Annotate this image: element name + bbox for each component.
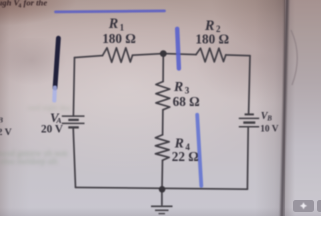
- wire: R2 to top-right corner: [226, 54, 250, 57]
- wire: left vertical top (corner to battery VA): [73, 58, 74, 117]
- UI zoom button with star: [293, 200, 314, 212]
- wire: top-left horizontal from left corner to R1: [75, 56, 103, 58]
- wire: R3 to R4: [162, 110, 164, 135]
- wire: right vertical bottom (battery VB to bottom wire): [246, 127, 249, 190]
- battery VB: [239, 114, 259, 126]
- page edge dark line (slanted): [280, 0, 289, 219]
- label R3: [173, 79, 190, 96]
- label VA: [50, 110, 62, 125]
- annotation: dark pen vertical mark (left): [55, 38, 58, 88]
- partial second UI button at right edge: [317, 200, 321, 212]
- label VB: [261, 111, 273, 123]
- shadow just left of page edge: [255, 0, 285, 216]
- node A junction dot: [160, 50, 167, 57]
- wire: node A down to R3: [162, 54, 164, 82]
- label R4: [174, 135, 191, 152]
- light falloff right of the edge line: [285, 0, 295, 216]
- wire: ground stub: [161, 189, 163, 205]
- battery VA: [62, 116, 85, 127]
- wire: R4 to bottom junction: [161, 160, 164, 189]
- light grey strip right of page edge: [285, 0, 321, 216]
- annotation: blue highlighter vertical mark (middle top): [177, 29, 179, 69]
- green bleed-through text: [0, 149, 136, 165]
- wire: right vertical top (corner to battery VB): [249, 56, 250, 115]
- resistor R3: [156, 82, 170, 110]
- wire: left vertical bottom (battery VA to bottom wire): [73, 127, 75, 187]
- bottom junction dot: [159, 186, 166, 193]
- label R2: [204, 18, 221, 34]
- wire: R1 to node A: [133, 54, 164, 56]
- page background gradient (warm top to cool light bottom): [0, 0, 285, 216]
- wire: node A to R2: [163, 54, 196, 55]
- resistor R1: [103, 48, 133, 63]
- annotation: light blue tail of left mark: [52, 88, 57, 101]
- resistor R4: [155, 135, 169, 161]
- faint pencil arc on right margin: [291, 30, 297, 85]
- page center highlight: [0, 0, 285, 216]
- wire: bottom horizontal: [76, 187, 248, 189]
- soft shadow blob left-middle: [0, 38, 70, 88]
- resistor R2: [196, 48, 226, 62]
- soft shadow right-of-center upper: [195, 15, 321, 105]
- top-right warm shade near page edge: [180, 0, 285, 120]
- label R1: [108, 16, 125, 32]
- annotation: blue highlighter horizontal line (top): [56, 11, 165, 12]
- ground: [151, 206, 173, 213]
- annotation: blue highlighter vertical mark (lower right): [197, 115, 201, 186]
